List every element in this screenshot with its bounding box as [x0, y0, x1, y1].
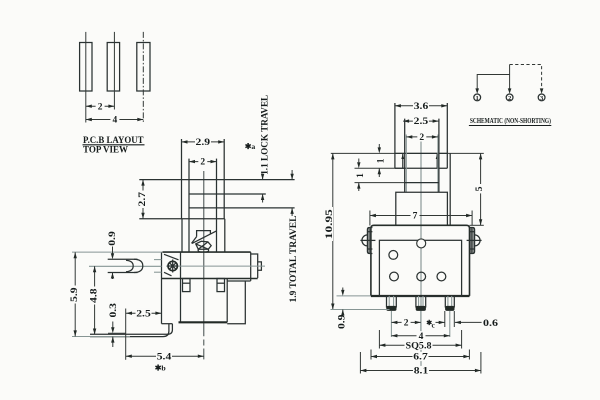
extension bump right (8.1) — [480, 352, 482, 374]
dimension 1.1 arrows — [262, 176, 264, 180]
svg-text:7: 7 — [413, 212, 418, 222]
extension body left (6.7) — [370, 350, 372, 360]
extension plate left (SQ5.8) — [378, 330, 380, 349]
svg-text:2.5: 2.5 — [136, 309, 151, 319]
terminal 1 circle — [474, 94, 481, 101]
dimension 0.3 — [112, 322, 114, 328]
shaft inner right wall + 2 extension — [216, 159, 218, 253]
svg-text:2.5: 2.5 — [414, 117, 429, 127]
dimension 3.6 — [395, 105, 447, 107]
pin 2 — [416, 296, 426, 308]
wire terminal2 vertical (solid) — [509, 65, 511, 89]
arrowhead terminal 3 — [540, 88, 544, 93]
extension line top (5.9/0.9) — [72, 251, 162, 253]
dimension 2.5 — [126, 312, 161, 314]
barrel left block left wall — [161, 252, 163, 324]
extension body right (6.7) — [468, 350, 470, 360]
dimension 4 (overall pad span) — [86, 119, 144, 121]
dimension 4 — [391, 335, 449, 337]
svg-text:4.8: 4.8 — [89, 288, 99, 303]
barrel end cap — [251, 254, 258, 278]
terminal 3 circle — [538, 94, 545, 101]
svg-text:✱a: ✱a — [245, 142, 256, 151]
rivet hole row center — [417, 272, 426, 281]
screw head circle — [168, 261, 177, 270]
lower body main bottom edge — [179, 321, 228, 323]
svg-text:2.9: 2.9 — [196, 138, 211, 148]
shaft travel line (total) + extension — [189, 207, 295, 209]
detent cam rounded feet — [198, 249, 208, 252]
extension body bottom left (0.9) — [337, 295, 371, 297]
svg-text:0.9: 0.9 — [337, 314, 347, 329]
pin 3 — [445, 296, 454, 308]
svg-text:2: 2 — [98, 102, 103, 112]
right ear center line — [467, 239, 482, 241]
barrel axis line — [166, 265, 265, 267]
pin 3 center extension — [449, 311, 451, 337]
extension line bottom (5.9) — [72, 336, 130, 338]
svg-text:1.1 LOCK TRAVEL: 1.1 LOCK TRAVEL — [259, 95, 269, 175]
bent wire inner — [90, 324, 172, 335]
cap outline — [395, 103, 447, 168]
terminal fork inner fold — [126, 260, 133, 272]
extension line wire top (0.3) — [108, 332, 126, 334]
left ear center line — [360, 239, 375, 241]
svg-text:5: 5 — [475, 186, 485, 191]
svg-text:c: c — [432, 321, 436, 330]
dimension 2 (shaft) — [189, 161, 217, 163]
body bottom edge heavy — [371, 295, 470, 297]
dimension SQ5.8 — [379, 344, 461, 346]
cap slot right wall with arrow — [436, 153, 438, 168]
detent cam step left — [197, 231, 211, 237]
center line of side view — [203, 171, 205, 336]
center line pad P3 (dash-dot) — [142, 32, 144, 123]
rivet hole row right — [437, 272, 446, 281]
dimension 0.6 leader — [455, 321, 482, 323]
svg-text:2: 2 — [404, 319, 409, 329]
shaft outer right wall + 2.9 extension — [223, 139, 225, 219]
extension plate right (SQ5.8) — [461, 330, 463, 349]
dimension 4.8 — [94, 266, 96, 334]
extension 7 right — [471, 211, 473, 226]
stage block right wall — [224, 219, 226, 252]
svg-text:8.1: 8.1 — [414, 367, 429, 377]
lower body main right wall — [226, 279, 228, 323]
gray extension for dim 2 left — [405, 135, 407, 193]
svg-text:SQ5.8: SQ5.8 — [406, 341, 432, 351]
svg-text:2: 2 — [200, 158, 205, 168]
terminal fork outer U bend — [134, 259, 143, 272]
left ear bump — [362, 235, 367, 246]
pin 1 center extension — [390, 311, 392, 337]
svg-text:2.7: 2.7 — [138, 192, 148, 207]
shaft travel line (lock) + extension — [189, 193, 266, 195]
stage block front view — [396, 192, 448, 225]
collar outline + 2.5 extension up — [405, 119, 439, 193]
extension pin bottom left (10.95/0.9) — [331, 309, 390, 311]
dimension 2.7 — [142, 180, 144, 219]
pad P3 — [137, 43, 150, 92]
svg-text:1: 1 — [356, 173, 366, 178]
dimension 2 (pin pitch) — [391, 321, 420, 323]
arrowhead terminal 2 — [508, 88, 512, 93]
dimension 2.5 (cap slot) — [403, 120, 439, 122]
terminal fork middle line + 4.8 extension — [89, 265, 162, 267]
dimension 0.9 (front) — [342, 288, 344, 291]
wire terminal1 to common (solid) — [477, 75, 509, 89]
svg-text:SCHEMATIC (NON-SHORTING): SCHEMATIC (NON-SHORTING) — [470, 116, 551, 125]
pad P1 — [80, 43, 92, 92]
shaft inner left wall + 2 extension — [188, 159, 190, 253]
extension pin3 right edge — [453, 311, 455, 327]
shaft top edge + extension line — [139, 179, 294, 181]
barrel right wall — [250, 252, 252, 281]
dimension 5.4 — [126, 355, 204, 357]
right ear bracket — [470, 228, 475, 254]
dimension 1.9 arrows — [291, 170, 293, 180]
svg-text:5.9: 5.9 — [70, 287, 80, 302]
barrel left block right wall — [180, 252, 182, 322]
shaft top edge + long extension both sides — [331, 152, 484, 154]
barrel bottom edge — [162, 278, 258, 280]
front plate — [379, 240, 461, 296]
center line pad P1 — [85, 32, 87, 123]
pin 1 — [387, 296, 397, 308]
detent cam pentagon — [196, 241, 212, 249]
extension line x=125.7 (2.5/5.4) — [125, 309, 127, 360]
screw cross — [168, 260, 178, 273]
arrow to pin3 left edge — [436, 321, 445, 323]
barrel top edge — [162, 251, 250, 253]
body outline — [371, 225, 470, 296]
bent wire outer — [90, 324, 169, 337]
svg-text:1: 1 — [476, 95, 479, 102]
terminal fork top leaf — [108, 258, 138, 260]
collar step line + extension left — [355, 182, 405, 184]
cap slot left wall with arrow — [402, 153, 404, 168]
terminal fork bottom leaf — [108, 272, 138, 274]
lower body right block — [227, 281, 250, 324]
rivet hole upper left — [389, 251, 398, 260]
dimension 10.95 — [332, 153, 334, 309]
detent cam diagonal — [192, 231, 217, 244]
terminal 2 circle — [506, 94, 513, 101]
gray extension for dim 2 right — [437, 135, 439, 193]
svg-text:P.C.B LAYOUT: P.C.B LAYOUT — [83, 135, 144, 145]
dimension 1 (lower) arrows — [358, 159, 360, 163]
svg-text:4: 4 — [113, 116, 118, 126]
dimension 1 (upper) arrows — [378, 144, 380, 148]
left ear bracket — [367, 228, 372, 254]
svg-text:1: 1 — [377, 158, 387, 163]
dimension 6.7 — [371, 356, 469, 358]
svg-text:10.95: 10.95 — [325, 209, 335, 239]
pin 2 center extension — [420, 311, 422, 337]
center line front view — [420, 140, 422, 373]
right ear bump — [475, 235, 481, 246]
center line pad P2 — [113, 32, 115, 110]
svg-text:2: 2 — [419, 133, 424, 143]
pad P2 — [107, 43, 119, 92]
svg-text:4: 4 — [419, 332, 424, 342]
dimension 2.9 — [182, 141, 225, 143]
dimension 0.9 (side, fork) — [112, 244, 114, 254]
shaft outer left wall + 2.9 extension — [181, 139, 183, 219]
dimension 7 — [370, 215, 472, 217]
barrel left block chamfer top — [164, 254, 179, 259]
barrel left block chamfer bottom — [164, 272, 172, 276]
dimension 5.9 — [74, 252, 76, 336]
dimension 8.1 — [360, 370, 481, 372]
body top extension right (for 5) — [470, 224, 484, 226]
extension pin3 left edge — [444, 311, 446, 327]
stage block left wall — [181, 219, 183, 252]
notch circle top center — [417, 239, 426, 248]
svg-text:5.4: 5.4 — [157, 352, 172, 362]
detent cam cross lines — [196, 242, 209, 249]
dimension 2 (pad pitch) — [86, 105, 115, 107]
svg-text:0.6: 0.6 — [483, 319, 498, 329]
notch 1 — [183, 279, 191, 292]
dimension 2 (stem) — [406, 136, 438, 138]
cap bottom edge + extension left — [355, 167, 405, 169]
svg-text:0.9: 0.9 — [108, 231, 118, 246]
svg-text:3.6: 3.6 — [414, 102, 429, 112]
notch 2 — [217, 279, 225, 292]
svg-text:0.3: 0.3 — [109, 303, 119, 318]
extension bump left (8.1) — [359, 352, 361, 374]
arrowhead terminal 1 — [475, 88, 479, 93]
wire to terminal3 (dashed) — [510, 65, 542, 89]
svg-text:6.7: 6.7 — [413, 353, 428, 363]
svg-text:TOP VIEW: TOP VIEW — [83, 145, 129, 155]
frame back edge (right) — [449, 153, 451, 225]
lower body left block bottom — [162, 323, 173, 325]
svg-text:1.9 TOTAL TRAVEL: 1.9 TOTAL TRAVEL — [288, 216, 298, 303]
svg-text:✱b: ✱b — [155, 364, 167, 373]
rivet hole row left — [390, 272, 399, 281]
extension 7 left — [369, 211, 371, 226]
barrel nub — [258, 262, 262, 270]
stage block top edge + extension — [139, 218, 225, 220]
dimension 5 — [480, 153, 482, 225]
